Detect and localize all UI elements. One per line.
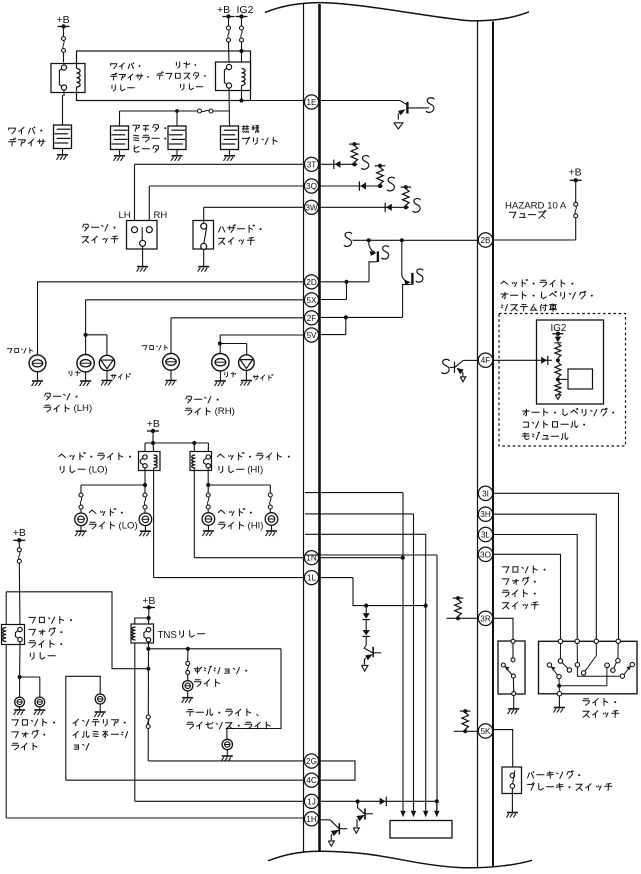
- turn lamp front RH: [163, 353, 180, 370]
- inline connector (1E circuit): [400, 101, 406, 105]
- wire 1L right segment: [319, 577, 353, 579]
- wire HI lamp feed line: [208, 484, 270, 486]
- front fog lamp right: [35, 697, 45, 707]
- node module lower: [556, 377, 560, 381]
- svg-text:3I: 3I: [482, 489, 489, 498]
- label front fog light: [12, 719, 55, 726]
- svg-text:3H: 3H: [480, 510, 491, 519]
- wire 1L left segment: [154, 577, 305, 579]
- resistor (module internal upper): [555, 344, 561, 358]
- svg-text:LH: LH: [119, 210, 131, 221]
- wire 3W to hazard switch: [204, 206, 305, 208]
- ground (side marker LH): [106, 371, 108, 381]
- ground (rear turn RH): [219, 371, 221, 381]
- node 3W junction: [404, 205, 408, 209]
- light switch left pair with arrow: [547, 663, 551, 667]
- wire 2G left segment: [148, 760, 305, 762]
- turn lamp rear LH: [77, 355, 94, 372]
- connector 3L on bus 2: [478, 527, 492, 541]
- wire 1N right segment: [319, 557, 403, 559]
- connector 5V on bus 1: [304, 328, 318, 342]
- main harness bus 1 right line (thick): [318, 4, 321, 851]
- svg-text:+B: +B: [569, 167, 582, 179]
- ground (interior illumination): [99, 704, 101, 712]
- wire fog contact to fog lamps: [19, 642, 21, 677]
- wire 3H right segment: [493, 514, 596, 639]
- fuse (IG2 relay coils): [241, 19, 243, 26]
- connector 2B on bus 2: [478, 233, 492, 247]
- continuation arrow (module internal): [555, 395, 561, 400]
- wire +B to TNS relay: [148, 610, 150, 618]
- fuse (+B rear defroster contact): [228, 19, 230, 26]
- wire 4C right rectangle: [319, 761, 355, 780]
- wire fuse to hot-wire vertical: [213, 110, 230, 112]
- label front (LH): [7, 348, 32, 353]
- inline connector (1J branch): [358, 804, 365, 814]
- label wiper deicer relay: [111, 63, 141, 70]
- continuation arrow (1H): [328, 841, 334, 846]
- wire 3R to fog switch: [493, 618, 513, 639]
- label side RH: [253, 375, 273, 381]
- light switch pole A chain: [559, 644, 561, 660]
- arrow into module (3L wire): [425, 810, 427, 813]
- headlamp LO right: [139, 513, 152, 526]
- resistor (module internal lower): [555, 381, 561, 394]
- fuse (front fog relay +B): [18, 542, 20, 547]
- label front fog light switch: [502, 566, 545, 573]
- ground (fog lamp left): [19, 707, 21, 710]
- wire to sub-block: [558, 378, 568, 380]
- ground (turn switch): [142, 246, 144, 266]
- wire 3O left segment: [305, 554, 437, 556]
- continuation squiggle (3Q): [387, 177, 395, 191]
- wire feed to TNS contact: [148, 618, 150, 628]
- wire tie down to 5V: [345, 317, 347, 334]
- wire 1J left segment: [135, 800, 305, 802]
- arrow into module (3O wire): [436, 801, 438, 813]
- ground (fog switch): [513, 696, 515, 709]
- relay K1 coil: [77, 69, 81, 88]
- node position lamp branch: [186, 647, 190, 651]
- main harness bus 2 right line (thick): [492, 21, 494, 867]
- heater element outer mirror 1: [111, 126, 129, 150]
- ground (front turn LH): [37, 372, 39, 381]
- node rear/side LH split: [84, 333, 88, 337]
- fuse (tail light circuit): [146, 715, 150, 719]
- node hazard branch 2: [400, 238, 404, 242]
- ground (LO left lamp): [80, 526, 82, 531]
- svg-text:5K: 5K: [480, 727, 491, 736]
- connector 3W on bus 1: [304, 200, 318, 214]
- wire 1E to inline connector: [319, 100, 400, 102]
- node diode branch: [364, 604, 368, 608]
- inline connector (4F): [455, 360, 463, 367]
- node 3T junction: [352, 162, 356, 166]
- connector 4C on bus 1: [304, 773, 318, 787]
- node IG2 joins relay box top edge: [239, 49, 243, 53]
- connector 2F on bus 1: [304, 311, 318, 325]
- fog switch contacts: [511, 639, 515, 643]
- wire 1N left segment: [194, 557, 305, 559]
- label headlight relay LO: [59, 452, 131, 460]
- wire 4C to interior illumination: [66, 676, 100, 780]
- wire fog relay loop top: [6, 592, 146, 669]
- wire 3L left segment: [305, 533, 426, 535]
- wire common jumper: [559, 668, 607, 686]
- svg-text:2G: 2G: [306, 757, 317, 766]
- wire headlight relay feed line: [145, 442, 209, 444]
- wire rear relay contact to hot wire print element: [228, 88, 231, 126]
- resistor with feed tick (3W): [401, 186, 412, 188]
- label hot wire print: [242, 125, 259, 132]
- label parking brake switch: [528, 771, 581, 779]
- label turn light RH: [186, 396, 219, 403]
- label turn switch: [83, 224, 116, 231]
- main harness bus 1 left line: [303, 3, 305, 851]
- wire to right fog lamp: [20, 676, 40, 678]
- connector 1L on bus 1: [304, 571, 318, 585]
- wire 3I left segment: [305, 492, 403, 494]
- wire 4F left segment: [463, 359, 478, 361]
- wire to side marker RH: [220, 343, 247, 345]
- node 1N joins 3I vertical: [401, 556, 405, 560]
- resistor with feed tick (5K): [460, 710, 471, 712]
- relay group box (wiper deicer + rear defroster relays): [77, 51, 251, 101]
- wire 3Q to diode network: [319, 185, 383, 187]
- wire feed to LO coil: [152, 443, 155, 452]
- svg-text:3R: 3R: [480, 614, 491, 623]
- wire 1E line (relay outputs to connector 1E): [251, 100, 305, 102]
- wire TNS coil to 1J: [134, 643, 136, 801]
- label auto leveling control module: [522, 408, 614, 416]
- ground (outer mirror heater 1): [119, 150, 121, 156]
- svg-text:+B: +B: [13, 527, 26, 539]
- node 3Q junction: [378, 184, 382, 188]
- connector 3R on bus 2: [478, 611, 492, 625]
- ground (LO right lamp): [144, 526, 146, 531]
- svg-text:3L: 3L: [481, 531, 491, 540]
- svg-text:1E: 1E: [306, 98, 317, 107]
- wire 3I left vertical: [402, 493, 404, 811]
- heater element wiper deicer: [54, 125, 72, 149]
- label light switch: [583, 698, 617, 705]
- node 1J connector branch: [356, 799, 360, 803]
- node mirror heater tee: [175, 109, 179, 113]
- arrow into module (3H wire): [413, 810, 415, 813]
- svg-text:TNS: TNS: [158, 630, 178, 641]
- node hot wire tee: [228, 110, 230, 112]
- relay K4 coil: [192, 455, 196, 468]
- svg-text:RH: RH: [154, 210, 168, 221]
- fuse (headlamp HI left): [207, 485, 209, 493]
- relay K4 contact: [206, 455, 210, 459]
- svg-text:3T: 3T: [307, 160, 317, 169]
- headlamp HI left: [202, 513, 215, 526]
- sub-block box: [568, 369, 593, 389]
- inline connector (turn RH circuit): [401, 242, 403, 275]
- svg-text:1J: 1J: [307, 797, 316, 806]
- svg-text:2D: 2D: [306, 278, 317, 287]
- connector 1H on bus 1: [304, 812, 318, 826]
- ground (parking brake switch): [511, 788, 513, 812]
- svg-text:HAZARD 10 A: HAZARD 10 A: [505, 200, 567, 211]
- wire 3T to turn switch LH: [135, 163, 305, 165]
- wire HI coil to 1N: [193, 468, 195, 558]
- light switch pole B chain: [576, 644, 578, 663]
- module box (flasher control): [390, 821, 452, 839]
- wire 2F to inline connector: [319, 316, 403, 318]
- continuation arrow (DRL): [361, 665, 368, 671]
- wire IG2 to rear defroster relay coil: [241, 51, 243, 69]
- diode (3W circuit): [384, 203, 386, 212]
- resistor with feed tick (3T): [349, 143, 360, 145]
- ground (hot wire print): [229, 150, 231, 156]
- harness bottom edge curve: [268, 851, 532, 868]
- node coil output on 1E line: [239, 98, 243, 102]
- connector 5X on bus 1: [304, 293, 318, 307]
- node HI lamps split: [206, 483, 210, 487]
- ground (rear turn LH): [85, 372, 87, 381]
- ground (hazard switch): [203, 249, 205, 266]
- node light switch common: [557, 684, 561, 688]
- main harness bus 2 left line: [477, 21, 479, 868]
- svg-text:2F: 2F: [307, 314, 317, 323]
- side marker lamp RH: [239, 355, 255, 371]
- position lamp: [183, 681, 193, 691]
- node 2D/5X tie: [344, 280, 348, 284]
- front fog lamp left: [19, 677, 21, 697]
- continuation squiggle (3T): [361, 156, 369, 170]
- wire +B to relay feed line: [152, 433, 154, 443]
- label headlight LO: [89, 508, 123, 516]
- wire 3Q to turn switch RH: [149, 185, 305, 187]
- fuse (mirror heater line): [198, 109, 202, 113]
- node LO lamps split: [143, 483, 147, 487]
- continuation squiggle (3W): [413, 199, 421, 213]
- ground (front turn RH): [170, 370, 172, 380]
- wire 5X right segment: [319, 299, 347, 301]
- connector 3H on bus 2: [478, 507, 492, 521]
- front fog light switch (box): [498, 641, 525, 694]
- node LO coil feed: [151, 441, 155, 445]
- resistor (module internal mid): [555, 362, 561, 377]
- relay K5 contact: [18, 627, 22, 631]
- ground (light switch): [558, 696, 560, 707]
- continuation squiggle (4F): [442, 359, 450, 373]
- label rear RH: [225, 372, 236, 377]
- diode (4F input): [547, 356, 549, 365]
- relay K1 wiper deicer relay (box): [51, 64, 85, 93]
- fuse (headlamp LO right): [144, 485, 146, 493]
- wire 2D to front turn lamp LH: [38, 281, 305, 283]
- node HI coil feed: [192, 441, 196, 445]
- diode D1 (DRL chain): [365, 608, 367, 615]
- fuse (headlamp HI right): [268, 493, 272, 497]
- headlamp LO left: [75, 513, 88, 526]
- svg-text:IG2: IG2: [237, 4, 254, 16]
- wire feed to HI coil: [193, 443, 195, 452]
- turn switch contacts: [132, 227, 138, 233]
- node 1J joins 3O vertical: [435, 799, 439, 803]
- wire 3O right segment: [493, 554, 561, 639]
- relay K5 front fog light relay (box): [2, 625, 25, 645]
- label position light: [194, 666, 247, 674]
- node 1L joins 3L vertical: [424, 604, 428, 608]
- wire 3W to diode network: [319, 206, 409, 208]
- hazard switch (box): [193, 221, 214, 250]
- wire 3I right segment: [493, 493, 619, 639]
- diode (3T circuit): [333, 160, 335, 169]
- wire 2F to front turn lamp RH: [171, 317, 305, 319]
- wire LO lamp feed line: [81, 484, 145, 486]
- wire feed to LO contact: [144, 443, 146, 455]
- diode (3Q circuit): [358, 181, 360, 190]
- wire 1H left segment: [6, 817, 305, 819]
- svg-text:1L: 1L: [307, 574, 317, 583]
- parking brake switch (box): [502, 767, 522, 794]
- svg-text:3W: 3W: [305, 203, 318, 212]
- relay K6 contact: [146, 628, 150, 632]
- light switch right pair with arrow: [630, 662, 634, 666]
- inline connector (turn LH circuit): [369, 242, 375, 252]
- label headlight relay HI: [218, 452, 290, 460]
- wire common to ground contact: [558, 686, 560, 692]
- wire TNS contact down: [147, 642, 149, 761]
- svg-text:(HI): (HI): [248, 520, 264, 531]
- label hazard switch: [219, 225, 262, 233]
- relay K2 contact: [226, 64, 231, 69]
- continuation squiggle (1E): [426, 98, 434, 113]
- node module mid: [556, 358, 560, 362]
- connector 5K on bus 2: [478, 724, 492, 738]
- node rear/side RH split: [218, 341, 222, 345]
- wire 3H left segment: [305, 513, 414, 515]
- relay K1 contact: [61, 65, 66, 70]
- diode (1J circuit): [385, 797, 387, 806]
- label interior illumination: [73, 719, 126, 726]
- wire LO contact to headlight feed: [144, 468, 146, 485]
- wire 5K to parking brake switch: [493, 730, 513, 767]
- resistor with feed tick (3R): [453, 597, 464, 599]
- auto leveling control module inner box: [537, 320, 604, 404]
- continuation arrow (4F): [460, 377, 466, 382]
- label outer mirror heater: [133, 125, 167, 132]
- wire 2B to hazard fuse: [493, 239, 576, 241]
- wire 4F inside module: [537, 359, 553, 361]
- label front (RH): [142, 345, 168, 350]
- relay K4 headlight relay HI (box): [190, 452, 212, 471]
- turn lamp rear RH: [212, 354, 229, 371]
- connector 3I on bus 2: [478, 486, 492, 500]
- turn switch (box): [127, 221, 158, 250]
- label headlight HI: [218, 508, 252, 516]
- relay K3 coil: [154, 455, 158, 468]
- label rear defroster relay: [176, 62, 196, 68]
- svg-text:4C: 4C: [306, 776, 317, 785]
- wire 3L left vertical: [425, 534, 427, 810]
- svg-text:5V: 5V: [306, 331, 317, 340]
- svg-text:(HI): (HI): [247, 464, 263, 475]
- connector 1N on bus 1: [304, 551, 318, 565]
- light switch entry contacts: [558, 639, 562, 643]
- wire LO coil to 1L: [153, 468, 155, 578]
- wire 5K left stub: [454, 730, 478, 732]
- resistor with feed tick (3Q): [375, 165, 386, 167]
- wire 3H left vertical: [413, 514, 415, 810]
- node TNS feed split: [147, 616, 151, 620]
- label headlight auto leveling system: [501, 279, 573, 287]
- svg-text:(LO): (LO): [119, 520, 138, 531]
- svg-text:(LH): (LH): [74, 403, 93, 414]
- relay K3 headlight relay LO (box): [139, 452, 161, 471]
- node hazard branch 1: [367, 238, 371, 242]
- wire 5X to rear/side turn LH: [86, 299, 305, 301]
- wire position light feed line: [148, 648, 281, 650]
- svg-text:3O: 3O: [480, 550, 491, 559]
- continuation squiggle (hazard feed): [344, 232, 352, 246]
- connector 3Q on bus 1: [304, 179, 318, 193]
- wire pole to dot: [558, 679, 560, 684]
- connector 2G on bus 1: [304, 754, 318, 768]
- wire 3O left vertical: [436, 555, 438, 810]
- light switch pole D chain: [617, 644, 619, 659]
- wire 2D to inline connector: [319, 281, 369, 283]
- relay K3 contact: [143, 455, 147, 459]
- tail lamp: [222, 739, 232, 749]
- relay K2 rear defroster relay (box): [216, 62, 251, 91]
- fuse HAZARD 10 A: [574, 202, 578, 206]
- svg-text:4F: 4F: [481, 356, 491, 365]
- continuation arrow (1E branch): [394, 123, 403, 129]
- connector 4F on bus 2: [478, 353, 492, 367]
- ground (outer mirror heater 2): [176, 150, 178, 156]
- diode (module internal): [557, 336, 559, 338]
- inline connector (1H branch): [330, 820, 339, 828]
- light switch pole C chain: [595, 644, 597, 656]
- ground (tail lamp): [226, 750, 228, 756]
- wire down to outer mirror heater 1: [119, 111, 121, 126]
- node 1H loop joins: [146, 667, 150, 671]
- heater element outer mirror 2: [168, 126, 186, 150]
- wire 3L right segment: [493, 535, 577, 640]
- node position feed: [146, 647, 150, 651]
- wire 3R left stub: [447, 617, 479, 619]
- ground (fog lamp right): [39, 707, 41, 710]
- headlamp HI right: [265, 513, 278, 526]
- wire tail light feed: [227, 649, 281, 740]
- relay K5 coil: [3, 628, 7, 642]
- svg-text:+B: +B: [147, 418, 160, 430]
- connector 3T on bus 1: [304, 157, 318, 171]
- label wiper deicer element: [9, 127, 43, 134]
- relay K6 coil: [132, 627, 136, 640]
- turn lamp front LH: [29, 355, 46, 372]
- svg-text:(RH): (RH): [215, 406, 235, 417]
- connector 1J on bus 1: [304, 794, 318, 808]
- inline connector (DRL branch): [365, 637, 367, 645]
- wire heater feed line with fuse: [120, 110, 198, 112]
- wire HI contact to headlight feed: [207, 468, 209, 485]
- svg-text:+B: +B: [217, 4, 230, 16]
- wire 1H to inline connector: [319, 819, 330, 821]
- wire to side marker LH: [86, 334, 107, 336]
- wire 5V to rear/side turn RH: [220, 334, 305, 336]
- diode D2 (DRL chain): [365, 620, 367, 631]
- svg-text:3Q: 3Q: [306, 182, 317, 191]
- relay K6 TNS relay (box): [131, 624, 154, 643]
- arrow into module (3I wire): [402, 810, 404, 813]
- connector 1E on bus 1: [304, 95, 318, 109]
